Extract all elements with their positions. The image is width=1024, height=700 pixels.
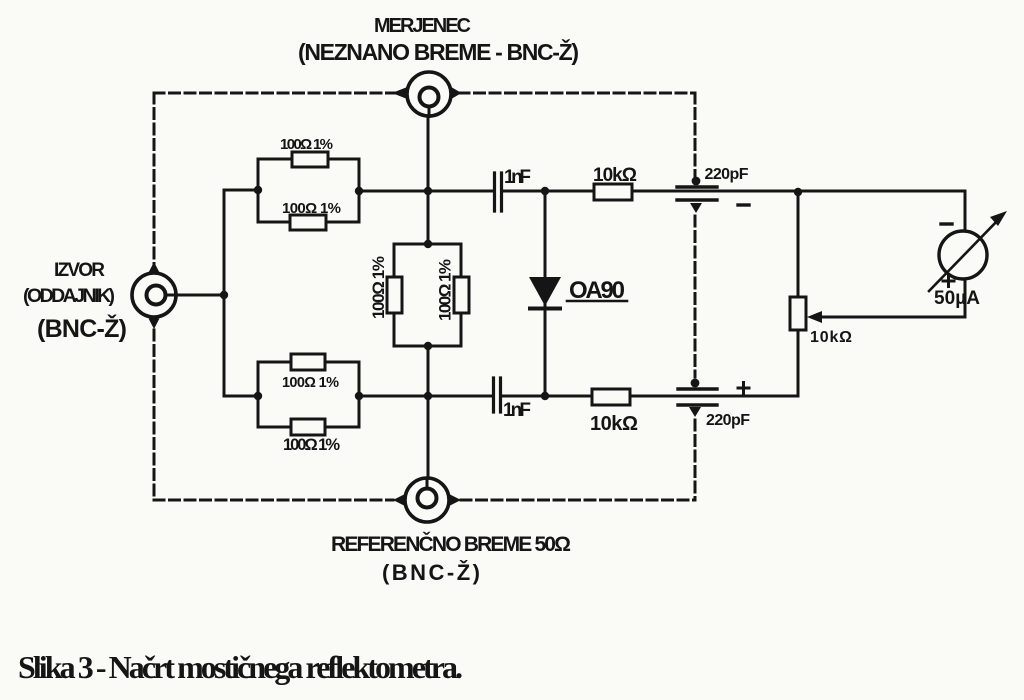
svg-text:220pF: 220pF [705,166,749,183]
svg-text:(BNC-Ž): (BNC-Ž) [37,313,127,343]
svg-text:100Ω 1%: 100Ω 1% [282,200,341,217]
svg-text:IZVOR: IZVOR [54,260,105,281]
svg-text:100Ω 1%: 100Ω 1% [436,259,455,321]
svg-text:50µA: 50µA [934,288,980,309]
svg-text:Slika 3 - Načrt mostičnega ref: Slika 3 - Načrt mostičnega reflektometra… [18,649,463,685]
svg-text:100Ω 1%: 100Ω 1% [283,436,340,454]
svg-text:100Ω 1%: 100Ω 1% [282,375,339,391]
svg-text:1nF: 1nF [503,400,531,421]
svg-text:1nF: 1nF [504,167,531,188]
svg-text:REFERENČNO BREME 50Ω: REFERENČNO BREME 50Ω [331,532,571,556]
svg-text:10kΩ: 10kΩ [810,329,852,346]
svg-text:MERJENEC: MERJENEC [374,15,471,37]
svg-text:(BNC-Ž): (BNC-Ž) [382,560,480,585]
svg-text:100Ω 1%: 100Ω 1% [280,136,333,153]
svg-text:10kΩ: 10kΩ [590,413,638,435]
svg-text:10kΩ: 10kΩ [593,165,637,186]
svg-text:220pF: 220pF [706,412,750,429]
svg-text:OA90: OA90 [569,277,625,304]
svg-text:(NEZNANO BREME - BNC-Ž): (NEZNANO BREME - BNC-Ž) [298,38,579,65]
svg-text:(ODDAJNIK): (ODDAJNIK) [23,285,115,307]
svg-text:100Ω 1%: 100Ω 1% [369,256,388,319]
